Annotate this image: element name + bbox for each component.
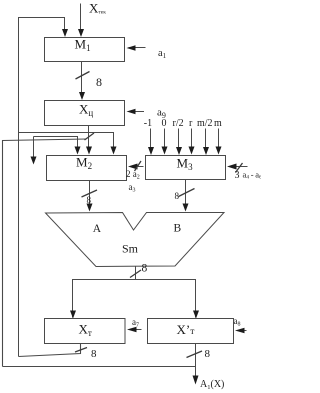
wire: branch line into M2 at x=77 (34, 137, 78, 149)
svg-text:Sm: Sm (122, 242, 139, 256)
control a7 wire (129, 329, 142, 331)
feedback Xt slash (75, 348, 87, 353)
mux M3 (146, 156, 226, 180)
feedback Xt output (19, 344, 81, 357)
bus Sm output slash (130, 270, 141, 278)
adder Sm trapezoid (46, 213, 225, 267)
bus Xc-M2 slash (85, 133, 95, 140)
control a8 wire (237, 330, 247, 332)
bus M1-Xc arrowhead (79, 92, 85, 100)
svg-text:a7: a7 (132, 317, 139, 329)
svg-text:a4 - a6: a4 - a6 (243, 170, 262, 181)
svg-text:8: 8 (91, 348, 97, 360)
wire: feedback into M2 at x=113 (19, 133, 114, 149)
svg-text:r/2: r/2 (173, 118, 184, 129)
svg-text:a8: a8 (234, 316, 241, 328)
output X't slash (187, 351, 203, 358)
control a4-a6 wire (229, 166, 248, 168)
output X't down (195, 344, 197, 378)
svg-text:m: m (214, 118, 222, 129)
svg-text:8: 8 (142, 263, 148, 275)
control a9 arrowhead (127, 109, 136, 115)
constants arrows into M3 (150, 129, 152, 149)
bus Sm output (135, 267, 137, 281)
wire: top feedback from node at x=18 to M1 (19, 18, 65, 133)
mux M2 (47, 156, 127, 181)
svg-text:r: r (189, 118, 193, 129)
svg-text:-1: -1 (144, 118, 152, 129)
control a9 wire (129, 111, 145, 113)
wire distribution to registers (73, 280, 196, 318)
bus Xc to M2 (88, 126, 90, 149)
svg-text:8: 8 (96, 75, 102, 89)
wire: far-left feedback vertical x=2 (3, 139, 87, 367)
svg-text:a3: a3 (129, 182, 136, 194)
svg-text:2 a2: 2 a2 (126, 169, 140, 181)
node output arrowhead (193, 376, 199, 385)
bus M1-Xc slash (76, 72, 90, 80)
svg-text:m/2: m/2 (197, 118, 213, 129)
wire: left feedback vertical x=18 (18, 133, 20, 357)
wire X't feedback to far-left (3, 366, 196, 368)
hanging arrow at x=33 (33, 137, 35, 158)
svg-text:8: 8 (205, 348, 211, 360)
bus M3 to Sm (185, 180, 187, 206)
svg-text:8: 8 (175, 191, 180, 201)
svg-text:Xтек: Xтек (89, 1, 106, 16)
svg-text:0: 0 (162, 118, 167, 129)
register X't (148, 319, 234, 344)
control a1 wire (129, 47, 146, 49)
bus M1 to Xc (81, 62, 83, 94)
svg-text:3: 3 (235, 170, 240, 181)
svg-text:a1: a1 (158, 48, 167, 60)
register M1 (45, 38, 125, 62)
svg-text:A1(X): A1(X) (200, 379, 224, 391)
control a2 wire between M2 and M3 (130, 166, 144, 168)
register Xt (45, 319, 126, 344)
node arrowhead into M2 x=77 (75, 147, 81, 155)
control a1 arrowhead (127, 45, 136, 51)
register Xc (45, 101, 125, 126)
bus M2 to Sm (89, 181, 91, 206)
wire: input X tek vertical (80, 4, 82, 31)
node feedback arrowhead into M1 (62, 29, 68, 37)
node input arrowhead into M1 (78, 29, 84, 37)
control a4-a6 slash (236, 163, 243, 173)
svg-text:8: 8 (87, 195, 92, 205)
svg-text:A: A (93, 223, 102, 235)
control a2 slash (135, 161, 142, 171)
svg-text:B: B (174, 223, 182, 235)
